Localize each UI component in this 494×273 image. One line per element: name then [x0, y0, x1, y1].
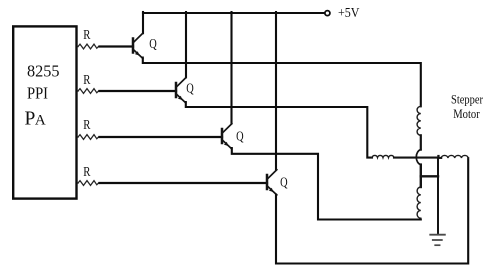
wire rail to Q2 collector — [185, 12, 187, 77]
wire rail to Q4 collector — [275, 12, 277, 169]
svg-text:R: R — [83, 72, 90, 87]
svg-text:PA: PA — [25, 109, 46, 130]
transistor Q3 — [222, 124, 232, 149]
wire R1 to Q1 base — [100, 45, 134, 47]
svg-text:Q: Q — [186, 81, 194, 96]
wire Q2 emitter to stepper coil L2 (phase B) — [186, 102, 372, 158]
ground — [430, 235, 445, 246]
svg-text:PPI: PPI — [27, 83, 48, 102]
svg-text:+5V: +5V — [338, 6, 360, 21]
wire R2 to Q2 base — [100, 90, 177, 92]
resistor R4 — [78, 181, 101, 186]
wire center tap to ground — [437, 158, 439, 233]
wire center tap node to L4 — [438, 157, 441, 159]
crossover hop arc (no connection) — [416, 150, 421, 165]
wire PA3 from 8255 to R4 — [77, 182, 79, 184]
transistor Q1 — [133, 33, 143, 58]
coil L3 stepper winding bottom — [417, 187, 421, 218]
resistor R1 — [78, 44, 101, 49]
coil L4 stepper winding right — [441, 155, 468, 158]
Stepper Motor label — [451, 92, 484, 121]
wire PA0 from 8255 to R1 — [77, 46, 79, 48]
svg-text:R: R — [83, 164, 90, 179]
svg-text:Q: Q — [280, 175, 288, 190]
wire Q3 emitter to stepper coil L3 (phase C) — [232, 148, 421, 220]
wire Q4 emitter to stepper coil L4 (phase D) — [276, 158, 468, 263]
IC U1 label 8255 PPI PA — [25, 62, 60, 130]
transistor Q2 — [176, 78, 186, 103]
wire rail to Q1 collector — [142, 12, 144, 33]
junction dot center tap node — [437, 155, 439, 158]
coil L1 stepper winding top — [417, 106, 421, 135]
svg-text:Q: Q — [149, 37, 157, 52]
wire Q1 emitter to stepper coil L1 (phase A) — [143, 58, 421, 107]
svg-text:8255: 8255 — [27, 62, 60, 81]
svg-text:R: R — [83, 27, 90, 42]
wire PA2 from 8255 to R3 — [77, 136, 79, 138]
wire L1 to crossover hop — [420, 135, 422, 149]
wire L2 to center tap node — [394, 157, 438, 159]
wire center-tap tie bar — [421, 175, 438, 177]
svg-text:R: R — [83, 117, 90, 132]
resistor R2 — [78, 89, 101, 94]
resistor R3 — [78, 135, 101, 140]
wire R3 to Q3 base — [100, 136, 223, 138]
wire R4 to Q4 base — [100, 182, 268, 184]
wire PA1 from 8255 to R2 — [77, 90, 79, 92]
svg-text:Stepper: Stepper — [451, 92, 484, 106]
IC U1 8255 PPI box — [13, 26, 76, 198]
wire rail to Q3 collector — [230, 12, 232, 123]
coil L2 stepper winding left — [372, 155, 394, 157]
+5V supply rail wire — [143, 12, 324, 14]
+5V terminal circle — [325, 11, 330, 16]
transistor Q4 — [267, 170, 277, 195]
svg-text:Q: Q — [236, 130, 244, 145]
svg-text:Motor: Motor — [453, 107, 480, 121]
wire hop to coil L3 top — [420, 165, 422, 187]
